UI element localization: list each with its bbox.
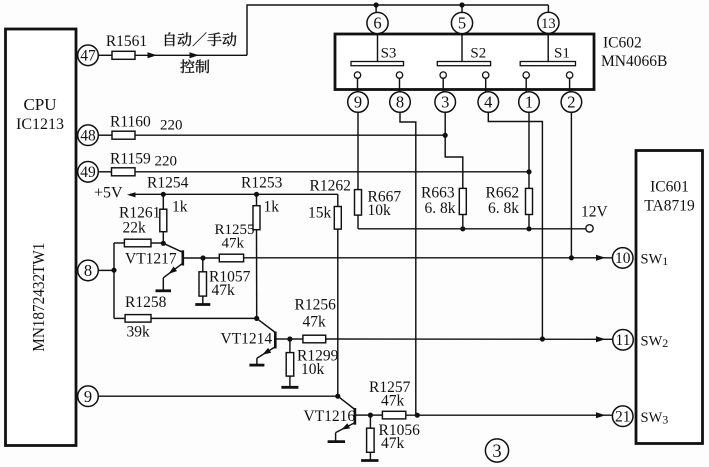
pin 47 of CPU	[78, 45, 99, 66]
wire pin9 to VT1216 base node	[98, 395, 338, 397]
svg-text:CPU: CPU	[23, 95, 56, 114]
transistor VT1217 emitter down wire	[162, 278, 164, 291]
svg-text:R1262: R1262	[310, 178, 351, 195]
wire R1561 to corner, control line	[135, 54, 247, 56]
wire SW2 line to IC601 pin11	[326, 338, 613, 340]
junction SW1 / IC602 pin2 drop	[569, 255, 574, 260]
svg-text:220: 220	[160, 118, 183, 134]
junction 12V / R663	[460, 226, 465, 231]
pin 10 of IC601	[612, 248, 633, 269]
svg-text:2: 2	[567, 93, 575, 112]
resistor R662 lead bottom	[528, 215, 530, 229]
transistor VT1214 emitter lead	[257, 347, 275, 358]
svg-text:47k: 47k	[222, 235, 245, 251]
wire stub to pin 6 circle	[375, 5, 377, 13]
svg-text:S3: S3	[381, 46, 397, 62]
svg-text:10k: 10k	[301, 361, 325, 378]
pin 5 of IC602	[451, 12, 472, 33]
wire pin9(IC602) down to R667	[357, 112, 359, 189]
resistor R667 lead bottom	[357, 215, 359, 229]
ground at R1299	[281, 386, 298, 389]
svg-text:SW1: SW1	[641, 252, 669, 269]
wire pin49 to R1159	[98, 171, 111, 173]
junction pin8 branch	[111, 268, 116, 273]
label 自动／手动 (auto/manual)	[165, 32, 236, 46]
transistor VT1216 base lead	[338, 396, 355, 409]
resistor R1056 lead top	[369, 415, 371, 428]
svg-text:R1160: R1160	[110, 114, 151, 131]
svg-text:47k: 47k	[381, 393, 405, 410]
junction on top rail at pin6	[374, 2, 379, 7]
switch S2 bar	[437, 62, 490, 66]
pin 4 of IC602	[478, 92, 499, 113]
transistor VT1216 base bar	[354, 408, 357, 425]
svg-text:15k: 15k	[308, 205, 332, 222]
svg-text:3: 3	[492, 442, 501, 462]
svg-text:10: 10	[615, 250, 631, 267]
svg-text:+5V: +5V	[94, 185, 123, 202]
wire collector to R1255	[203, 257, 219, 259]
transistor VT1217 collector lead	[183, 257, 203, 259]
svg-text:SW3: SW3	[641, 410, 669, 427]
wire pin8(IC602) down jog	[400, 112, 416, 415]
wire branch to R1261	[114, 242, 124, 244]
transistor VT1216 emitter lead	[336, 423, 355, 433]
arrow on control wire	[190, 52, 200, 58]
pin 1 of IC602	[519, 92, 540, 113]
wire SW3 line to IC601 pin21	[406, 414, 613, 416]
transistor VT1214 base lead	[257, 318, 276, 332]
wire stub to pin 5 circle	[461, 5, 463, 13]
resistor R1057 lead bottom	[202, 296, 204, 304]
+5V rail wire	[130, 193, 338, 195]
arrow on control wire	[148, 52, 158, 58]
wire pin2(IC602) down to SW1	[570, 112, 572, 257]
IC601 TA8719 box	[636, 151, 703, 444]
transistor VT1217 base bar	[182, 250, 185, 265]
pin 6 of IC602	[367, 12, 388, 33]
resistor R663 lead bottom	[462, 215, 464, 229]
transistor VT1216 emitter arrow	[341, 423, 350, 430]
transistor VT1214 emitter down wire	[256, 358, 258, 365]
svg-text:1k: 1k	[172, 199, 188, 216]
resistor R1254 lead bottom	[162, 232, 164, 244]
svg-text:IC602: IC602	[603, 35, 642, 52]
resistor R1299 lead top	[289, 339, 291, 353]
ground at VT1217 emitter	[156, 289, 172, 292]
junction VT1216 collector / R1056	[368, 413, 373, 418]
wire R1159 to IC602 pin1 net	[135, 171, 529, 173]
svg-text:VT1216: VT1216	[304, 408, 356, 425]
wire bend down to pin 13 circle	[547, 5, 549, 12]
junction SW3 / IC602 pin8 drop	[415, 413, 420, 418]
svg-text:49: 49	[80, 164, 96, 181]
svg-text:8: 8	[396, 93, 404, 112]
junction +5V / R1253	[254, 192, 259, 197]
arrow into pin21	[596, 412, 606, 418]
svg-text:8: 8	[84, 261, 92, 280]
resistor R1299 lead bottom	[289, 376, 291, 387]
resistor R1253 lead top	[256, 194, 258, 205]
switch S2 contact circle	[483, 72, 489, 78]
IC CPU IC1213 box	[6, 29, 77, 446]
svg-text:5: 5	[458, 14, 466, 33]
junction VT1217 collector / R1057	[200, 255, 205, 260]
wire branch vertical	[113, 243, 115, 318]
svg-text:SW2: SW2	[641, 334, 669, 351]
resistor R663	[459, 188, 466, 214]
wire pin48 to R1160	[98, 134, 112, 136]
transistor VT1216 emitter down wire	[335, 433, 337, 442]
svg-text:S2: S2	[470, 46, 486, 62]
svg-text:IC601: IC601	[650, 179, 689, 196]
transistor VT1217 base lead	[163, 243, 183, 252]
resistor R667	[355, 190, 362, 216]
pin 11 of IC601	[613, 330, 634, 351]
12V terminal circle	[586, 225, 593, 232]
switch S3 bar	[351, 62, 404, 66]
svg-text:R1561: R1561	[106, 33, 147, 50]
svg-text:13: 13	[541, 16, 556, 32]
svg-text:47: 47	[80, 48, 96, 65]
wire 12V rail	[358, 228, 586, 230]
svg-text:MN1872432TW1: MN1872432TW1	[29, 243, 48, 352]
resistor R1256	[303, 335, 326, 343]
switch S3 contact circle	[396, 72, 402, 78]
resistor R1253 lead bottom	[256, 230, 258, 319]
resistor R1262 lead bottom	[337, 229, 339, 396]
pin 8 of CPU	[78, 260, 99, 281]
switch S1 contact circle	[523, 72, 529, 78]
svg-text:220: 220	[155, 154, 178, 170]
svg-text:9: 9	[84, 387, 92, 406]
svg-text:TA8719: TA8719	[644, 198, 695, 215]
svg-text:R663: R663	[421, 185, 455, 202]
switch S3 contact circle	[354, 72, 360, 78]
svg-text:9: 9	[354, 93, 362, 112]
pin 21 of IC601	[612, 406, 633, 427]
wire pin1(IC602) down to R662	[528, 112, 530, 188]
resistor R1057 lead top	[202, 258, 204, 272]
junction pin9 / R1262 / VT1216 base	[335, 394, 340, 399]
svg-text:S1: S1	[554, 46, 570, 62]
junction on top rail at pin5	[459, 2, 464, 7]
svg-text:4: 4	[484, 93, 492, 112]
svg-text:6. 8k: 6. 8k	[425, 200, 456, 217]
svg-text:6. 8k: 6. 8k	[488, 200, 519, 217]
resistor R1057	[199, 272, 207, 296]
resistor R1159	[112, 168, 136, 176]
svg-text:47k: 47k	[381, 435, 405, 452]
resistor R1056 lead bottom	[369, 452, 371, 460]
junction 12V / R662	[526, 226, 531, 231]
switch S2 contact lead down	[485, 78, 487, 91]
ground at R1057	[195, 303, 210, 306]
resistor R1056	[367, 428, 375, 452]
svg-text:6: 6	[373, 14, 381, 33]
svg-text:1k: 1k	[264, 199, 280, 216]
wire R1261 to base node	[151, 242, 163, 244]
junction SW2 / IC602 pin4 drop	[540, 336, 545, 341]
svg-text:10k: 10k	[368, 202, 392, 219]
resistor R1258	[125, 315, 151, 323]
wire collector to R1256	[290, 338, 303, 340]
switch S1 bar	[520, 62, 575, 66]
transistor VT1217 emitter arrow	[169, 267, 178, 274]
resistor R1253	[253, 206, 260, 230]
svg-text:IC1213: IC1213	[16, 116, 64, 133]
svg-text:VT1217: VT1217	[125, 251, 177, 268]
svg-text:R1159: R1159	[110, 151, 151, 168]
wire R1258 to VT1214 base node	[151, 317, 257, 319]
svg-text:R1254: R1254	[147, 175, 189, 192]
wire R1160 to IC602 pin3 net	[135, 134, 445, 136]
junction R1258/R1253/VT1214 base	[254, 316, 259, 321]
svg-text:39k: 39k	[127, 324, 151, 341]
svg-text:12V: 12V	[581, 204, 609, 221]
junction R1261/R1254/VT1217 base	[161, 241, 166, 246]
transistor VT1214 base bar	[274, 332, 277, 349]
switch S1 contact lead down	[525, 78, 527, 91]
svg-text:22k: 22k	[123, 220, 147, 237]
svg-text:3: 3	[441, 93, 449, 112]
resistor R1254	[160, 209, 167, 232]
svg-text:VT1214: VT1214	[221, 331, 273, 348]
pin 9 of CPU	[78, 386, 99, 407]
wire collector to R1257	[370, 414, 382, 416]
transistor VT1217 emitter lead	[163, 263, 183, 278]
ground at R1056	[361, 459, 378, 462]
svg-text:21: 21	[615, 409, 631, 426]
label 控制 (control)	[180, 59, 209, 73]
switch S1 contact lead down	[569, 78, 571, 91]
pin 2 of IC602	[561, 92, 582, 113]
resistor R1254 lead top	[162, 194, 164, 209]
junction pin48 line / pin3 drop	[443, 133, 448, 138]
resistor R1299	[286, 353, 294, 377]
wire branch to R1258	[114, 317, 125, 319]
transistor VT1216 collector lead	[355, 414, 371, 416]
svg-text:R662: R662	[486, 185, 520, 202]
resistor R1262	[334, 207, 341, 230]
svg-text:11: 11	[616, 332, 631, 349]
wire pin8 to branch node	[98, 269, 114, 271]
junction pin49 line / pin1 drop	[526, 169, 531, 174]
page number circle 3	[485, 439, 508, 462]
wire +5V corner to R1262	[337, 194, 339, 206]
transistor VT1214 emitter arrow	[262, 348, 271, 355]
ground at VT1214 emitter	[249, 364, 264, 367]
pin 13 of IC602	[538, 12, 559, 33]
switch S1 control line	[547, 34, 549, 62]
wire SW1 line to IC601 pin10	[244, 257, 613, 259]
transistor VT1214 collector lead	[275, 338, 290, 340]
switch S2 control line	[461, 34, 463, 62]
resistor R1255	[219, 254, 243, 262]
wire pin3(IC602) down jog to R663	[445, 112, 463, 188]
switch S3 contact lead down	[399, 78, 401, 91]
svg-text:48: 48	[80, 128, 96, 145]
arrow into pin10	[596, 255, 606, 261]
switch S3 contact lead down	[357, 78, 359, 91]
resistor R662	[526, 188, 533, 214]
pin 48 of CPU	[78, 125, 99, 146]
svg-text:R1253: R1253	[241, 175, 283, 192]
ground at VT1216 emitter	[328, 440, 345, 443]
resistor R1257	[382, 411, 405, 419]
switch S1 contact circle	[566, 72, 572, 78]
pin 9 of IC602	[348, 92, 369, 113]
resistor R1261	[124, 239, 151, 247]
svg-text:1: 1	[525, 93, 533, 112]
switch S2 contact circle	[440, 72, 446, 78]
pin 49 of CPU	[78, 162, 99, 183]
resistor R1160	[112, 131, 135, 139]
pin 3 of IC602	[435, 92, 456, 113]
junction VT1214 collector / R1299	[287, 336, 292, 341]
+5V arrow	[127, 192, 136, 197]
junction +5V / R1254	[161, 192, 166, 197]
wire pin4(IC602) down jog to SW2	[488, 112, 542, 339]
svg-text:MN4066B: MN4066B	[601, 53, 667, 70]
wire corner up to top rail	[247, 5, 548, 55]
wire pin47 to R1561	[98, 54, 112, 56]
svg-text:R1258: R1258	[125, 294, 167, 311]
svg-text:47k: 47k	[303, 314, 327, 331]
svg-text:R1256: R1256	[295, 297, 337, 314]
resistor R1561	[112, 51, 135, 59]
pin 8 of IC602	[390, 92, 411, 113]
switch S3 control line	[377, 34, 379, 62]
svg-text:47k: 47k	[212, 282, 236, 299]
switch S2 contact lead down	[442, 78, 444, 91]
IC602 MN4066B box	[335, 34, 594, 90]
arrow into pin11	[596, 336, 606, 342]
